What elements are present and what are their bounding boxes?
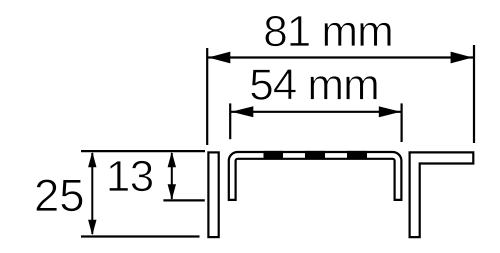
- arrowhead bottom of 25: [88, 220, 96, 236]
- extension line top left (shared by 25 and 13 dimensions): [81, 150, 205, 152]
- dimension line 13: [171, 153, 173, 199]
- extension line left of 54 mm dimension: [229, 103, 231, 139]
- arrowhead bottom of 13: [168, 184, 176, 200]
- svg-text:54 mm: 54 mm: [249, 61, 378, 110]
- extension line middle (bottom of 13 dimension): [163, 199, 204, 201]
- svg-text:81 mm: 81 mm: [263, 7, 392, 56]
- extension line right of 54 mm dimension: [401, 103, 403, 142]
- arrowhead right of 81 mm: [451, 52, 473, 64]
- anti-slip insert dash 2: [305, 151, 325, 159]
- anti-slip insert dash 3: [347, 151, 367, 159]
- right angle piece (L-shaped profile): [410, 152, 474, 237]
- arrowhead right of 54 mm: [379, 106, 401, 117]
- left side bar (vertical profile piece): [208, 152, 218, 237]
- arrowhead top of 25: [88, 152, 96, 168]
- arrowhead left of 81 mm: [208, 52, 230, 64]
- anti-slip insert dash 1: [264, 151, 284, 159]
- hat channel profile outer (black): [232, 155, 398, 201]
- svg-text:25: 25: [34, 170, 85, 221]
- arrowhead top of 13: [168, 152, 176, 168]
- extension line right of 81 mm dimension: [473, 45, 475, 143]
- svg-text:13: 13: [106, 152, 154, 201]
- dimension line 25: [91, 153, 93, 234]
- dimension line 54 mm: [231, 111, 401, 113]
- extension line bottom (bottom of 25 dimension): [81, 235, 200, 237]
- extension line left of 81 mm dimension: [206, 48, 208, 145]
- arrowhead left of 54 mm: [231, 106, 253, 117]
- hat channel profile inner (white core): [232, 155, 398, 198]
- dimension line 81 mm: [208, 56, 473, 58]
